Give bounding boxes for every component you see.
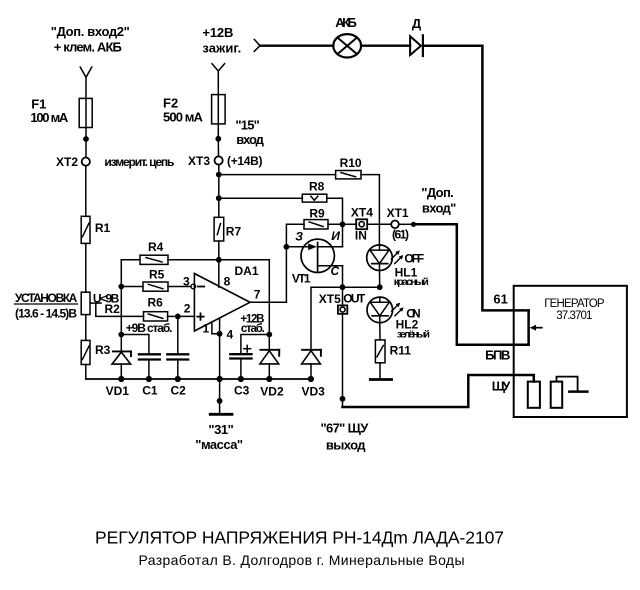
svg-text:выход: выход bbox=[326, 438, 366, 453]
node input arrow +12V ignition bbox=[254, 39, 260, 51]
led HL1 bbox=[367, 245, 393, 271]
wire C2 riser bbox=[177, 316, 179, 353]
wire HL2 to R11 bbox=[379, 323, 381, 340]
resistor R7 bbox=[214, 217, 224, 241]
svg-text:3: 3 bbox=[183, 275, 190, 289]
svg-text:R3: R3 bbox=[95, 343, 111, 357]
wire R8 to VT1 source bbox=[327, 198, 343, 247]
svg-text:ХТ4: ХТ4 bbox=[351, 206, 373, 220]
node junction R5 left bbox=[118, 284, 124, 290]
wire dop vhod to generator 61 bbox=[414, 224, 529, 344]
svg-text:"31": "31" bbox=[208, 422, 233, 437]
wire XT1 to junction bbox=[399, 223, 411, 225]
svg-text:R5: R5 bbox=[149, 268, 165, 282]
wire XT5 stem bbox=[342, 287, 344, 305]
svg-text:+9В стаб.: +9В стаб. bbox=[126, 321, 173, 335]
wire bbox=[218, 241, 220, 260]
svg-text:VD2: VD2 bbox=[260, 384, 284, 398]
wire bbox=[148, 361, 150, 379]
svg-text:вход: вход bbox=[236, 132, 264, 147]
svg-text:(13.6 - 14.5)В: (13.6 - 14.5)В bbox=[15, 306, 77, 320]
svg-text:ХТ2: ХТ2 bbox=[56, 155, 78, 169]
wire reference node vertical bbox=[120, 260, 122, 352]
resistor R1 bbox=[81, 216, 90, 243]
svg-text:R11: R11 bbox=[390, 343, 412, 357]
wire output drain row bbox=[311, 286, 380, 288]
resistor R8 varistor bbox=[302, 194, 327, 202]
fuse F1 bbox=[79, 98, 92, 127]
svg-text:зажиг.: зажиг. bbox=[202, 41, 241, 56]
zener diode VD1 bbox=[112, 351, 131, 379]
connector XT5 bbox=[338, 305, 347, 313]
node junction R10 branch bbox=[216, 172, 222, 178]
node junction below F2 bbox=[215, 136, 221, 142]
svg-text:УСТАНОВКА: УСТАНОВКА bbox=[15, 291, 78, 305]
capacitor C2 bbox=[167, 354, 188, 359]
node junction +9V branch bbox=[118, 332, 124, 338]
node junction C2 top bbox=[175, 314, 181, 320]
wire ShchU loop to generator bbox=[343, 375, 534, 407]
node junction rail VD2 bbox=[266, 376, 272, 382]
wire R8 row bbox=[219, 197, 302, 199]
wire bbox=[240, 360, 242, 379]
node junction dop vhod bbox=[411, 222, 416, 227]
svg-text:ГЕНЕРАТОР: ГЕНЕРАТОР bbox=[544, 298, 605, 310]
wire R11 to ground bbox=[379, 363, 381, 379]
capacitor C1 bbox=[139, 354, 160, 359]
wire bbox=[85, 365, 87, 380]
svg-text:"Доп. вход2": "Доп. вход2" bbox=[51, 24, 130, 39]
node junction rail pin4 bbox=[217, 376, 223, 382]
svg-text:OUT: OUT bbox=[343, 292, 366, 306]
svg-text:DA1: DA1 bbox=[235, 264, 259, 278]
wire R10 row bbox=[219, 174, 336, 176]
wire pin 2 row bbox=[168, 315, 195, 317]
svg-text:VT1: VT1 bbox=[292, 272, 311, 286]
svg-text:И: И bbox=[331, 229, 340, 243]
svg-text:Разработал В. Долгодров г. М: Разработал В. Долгодров г. Минеральные В… bbox=[139, 552, 465, 568]
resistor R3 bbox=[81, 340, 90, 364]
node junction pin1-pin4 bbox=[217, 331, 223, 337]
svg-text:C1: C1 bbox=[142, 384, 158, 398]
wire R10 to HL1 bbox=[361, 175, 379, 245]
fuse F2 bbox=[212, 95, 226, 124]
wire +12V branch to C3 bbox=[241, 335, 269, 354]
svg-text:вход": вход" bbox=[422, 201, 456, 216]
svg-text:РЕГУЛЯТОР НАПРЯЖЕНИЯ РН-14Дm: РЕГУЛЯТОР НАПРЯЖЕНИЯ РН-14Дm ЛАДА-2107 bbox=[95, 528, 504, 548]
pin 1 stub bbox=[212, 322, 220, 334]
svg-text:8: 8 bbox=[224, 275, 231, 289]
wire diode to generator 61 bbox=[424, 46, 529, 311]
zener diode VD3 bbox=[302, 350, 321, 379]
resistor R9 bbox=[304, 220, 328, 229]
svg-text:БПВ: БПВ bbox=[485, 347, 510, 362]
svg-text:(61): (61) bbox=[392, 227, 409, 241]
svg-text:Д: Д bbox=[412, 16, 422, 31]
wire bbox=[85, 139, 87, 157]
op-amp minus sign bbox=[198, 286, 204, 288]
svg-text:ХТ1: ХТ1 bbox=[387, 206, 409, 220]
svg-text:R1: R1 bbox=[95, 221, 111, 235]
resistor R6 bbox=[144, 312, 168, 321]
svg-text:С: С bbox=[331, 264, 340, 278]
svg-text:100 мА: 100 мА bbox=[30, 110, 69, 125]
capacitor C3 electrolytic bbox=[230, 345, 251, 358]
svg-text:R6: R6 bbox=[148, 295, 164, 309]
wire R4 feedback row bbox=[121, 259, 269, 261]
node input arrow F1 bbox=[80, 67, 92, 77]
wire R2 wiper bbox=[90, 303, 143, 316]
svg-text:61: 61 bbox=[493, 291, 507, 306]
wire bbox=[217, 139, 219, 157]
connector XT4 bbox=[356, 219, 367, 229]
node junction +12V branch bbox=[266, 332, 272, 338]
svg-text:"Доп.: "Доп. bbox=[421, 185, 454, 200]
node junction below F1 bbox=[83, 136, 89, 142]
pin 8 stub bbox=[218, 260, 220, 287]
svg-text:ЩУ: ЩУ bbox=[492, 378, 512, 393]
svg-text:7: 7 bbox=[254, 288, 261, 302]
svg-text:зелёный: зелёный bbox=[397, 328, 430, 340]
ground symbol HL2 bbox=[370, 378, 391, 381]
svg-text:+12В: +12В bbox=[202, 25, 233, 40]
generator brush 1 bbox=[528, 382, 540, 408]
node junction XT4 row bbox=[340, 221, 346, 227]
ustanovka underline bbox=[15, 303, 78, 305]
svg-text:C2: C2 bbox=[171, 384, 187, 398]
wire bbox=[85, 166, 87, 217]
node junction rail C1 bbox=[146, 376, 152, 382]
wire bbox=[217, 71, 219, 139]
ground symbol 31 massa bbox=[210, 413, 232, 416]
node junction ground stem bbox=[217, 398, 223, 404]
svg-text:+ клем. АКБ: + клем. АКБ bbox=[54, 39, 122, 54]
wire ground rail bbox=[86, 378, 311, 380]
resistor R10 bbox=[336, 171, 361, 179]
resistor R2 trimmer bbox=[81, 292, 90, 314]
svg-text:(+14В): (+14В) bbox=[227, 154, 263, 168]
svg-text:АКБ: АКБ bbox=[335, 15, 357, 30]
generator box bbox=[514, 286, 627, 417]
node junction rail VD3 bbox=[308, 376, 314, 382]
svg-text:R9: R9 bbox=[309, 206, 325, 220]
node XT2 bbox=[82, 158, 90, 166]
svg-text:IN: IN bbox=[355, 229, 367, 243]
node junction VT1 base bbox=[284, 244, 290, 250]
node XT3 bbox=[215, 156, 223, 164]
pin 4 wire and ground stem bbox=[219, 318, 221, 413]
svg-text:VD1: VD1 bbox=[106, 384, 130, 398]
node XT1 bbox=[391, 221, 399, 229]
node junction rail C3 bbox=[238, 376, 244, 382]
led HL1 emission arrows bbox=[391, 250, 403, 263]
wire bbox=[85, 243, 87, 292]
svg-text:R2: R2 bbox=[105, 302, 121, 316]
node junction rail C2 bbox=[175, 376, 181, 382]
wire op-amp output pin 7 bbox=[250, 301, 286, 303]
wire R9 right to XT4 bbox=[328, 223, 356, 225]
svg-text:4: 4 bbox=[227, 327, 234, 341]
generator 61 pin arrow bbox=[530, 325, 542, 331]
svg-text:500 мА: 500 мА bbox=[163, 110, 204, 125]
svg-text:R10: R10 bbox=[340, 156, 362, 170]
wire R5 row bbox=[121, 286, 191, 288]
svg-text:"15": "15" bbox=[235, 117, 259, 132]
node junction HL2 bbox=[377, 284, 383, 290]
wire bbox=[85, 77, 87, 139]
svg-text:R4: R4 bbox=[148, 240, 164, 254]
svg-text:З: З bbox=[295, 230, 303, 244]
svg-text:R7: R7 bbox=[226, 224, 242, 238]
op-amp DA1 bbox=[194, 274, 250, 332]
wire R9 left to VT1 base node bbox=[286, 224, 304, 302]
node junction R7 to feedback row bbox=[216, 257, 222, 263]
svg-text:C3: C3 bbox=[234, 384, 250, 398]
svg-text:37.3701: 37.3701 bbox=[556, 310, 592, 322]
wire lamp to diode bbox=[361, 45, 410, 47]
svg-text:F2: F2 bbox=[163, 96, 178, 111]
wire bbox=[85, 315, 87, 341]
transistor VT1 bbox=[286, 239, 342, 287]
node junction R8 branch bbox=[216, 195, 222, 201]
wire XT5 to 67 output bbox=[342, 314, 344, 407]
svg-text:1: 1 bbox=[203, 322, 210, 336]
led HL2 bbox=[367, 297, 393, 323]
svg-text:стаб.: стаб. bbox=[241, 323, 265, 335]
svg-text:"67" ЩУ: "67" ЩУ bbox=[321, 421, 370, 436]
resistor R11 bbox=[375, 340, 385, 363]
node junction rail VD1 bbox=[118, 376, 124, 382]
wire to lamp bbox=[260, 45, 333, 47]
generator 61 terminal notch bbox=[527, 310, 530, 344]
svg-text:2: 2 bbox=[184, 301, 191, 315]
svg-text:OFF: OFF bbox=[404, 251, 424, 265]
wire HL1 to node bbox=[379, 271, 381, 288]
wire XT4 to XT1 bbox=[367, 223, 391, 225]
generator brush 2 bbox=[551, 382, 563, 408]
lamp AKB bbox=[333, 34, 361, 57]
node junction XT5 bbox=[340, 284, 346, 290]
svg-text:измерит. цепь: измерит. цепь bbox=[104, 155, 174, 169]
resistor R4 bbox=[140, 255, 168, 264]
ground bar generator frame bbox=[569, 390, 587, 393]
wire bbox=[177, 361, 179, 379]
pin 3 bubble op-amp inverting input bbox=[191, 284, 196, 289]
op-amp plus sign bbox=[197, 313, 203, 319]
wire +14V vertical bbox=[218, 165, 220, 218]
svg-text:красный: красный bbox=[394, 276, 429, 288]
wire brush 2 to frame bbox=[557, 377, 578, 391]
svg-text:ХТ3: ХТ3 bbox=[188, 154, 210, 168]
diode D bbox=[410, 35, 423, 56]
node input arrow F2 bbox=[212, 64, 225, 71]
wire VD3 riser bbox=[310, 287, 312, 350]
wire +9V branch to C1 bbox=[121, 335, 149, 354]
led HL2 emission arrows bbox=[392, 303, 404, 316]
svg-text:"масса": "масса" bbox=[195, 437, 243, 452]
svg-text:VD3: VD3 bbox=[302, 384, 326, 398]
wire feedback corner down to output bbox=[268, 260, 270, 350]
svg-text:ХТ5: ХТ5 bbox=[319, 292, 341, 306]
svg-text:R8: R8 bbox=[309, 179, 325, 193]
node junction 67 output bbox=[340, 396, 346, 402]
zener diode VD2 bbox=[260, 350, 279, 379]
resistor R5 bbox=[143, 282, 168, 291]
